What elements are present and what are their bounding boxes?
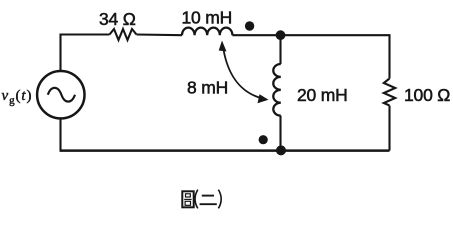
wire middle branch bottom — [279, 116, 281, 151]
svg-text:8 mH: 8 mH — [187, 78, 228, 98]
wire middle branch top — [279, 35, 281, 64]
resistor R 34ohm zigzag — [110, 29, 137, 40]
caption parenthesis right — [218, 190, 221, 209]
wire left rail bottom — [59, 118, 61, 150]
wire between R1 and L1 — [137, 33, 183, 36]
svg-text:10 mH: 10 mH — [182, 8, 233, 28]
wire top-right from L1 to right rail — [232, 35, 389, 78]
resistor R 100ohm zigzag — [384, 79, 395, 106]
inductor L2 20mH — [273, 64, 281, 116]
node junction top — [276, 30, 286, 40]
coupling dot of L2 — [259, 135, 268, 144]
node junction bottom — [276, 145, 286, 155]
caption figure 2 glyph tu — [182, 191, 193, 207]
wire top-left from source corner to R1 — [61, 35, 110, 72]
svg-text:100 Ω: 100 Ω — [404, 85, 450, 105]
svg-text:20 mH: 20 mH — [297, 85, 348, 105]
coupling dot of L1 — [245, 21, 254, 30]
mutual coupling arrow 8mH — [219, 41, 269, 104]
wire right rail bottom — [388, 106, 390, 151]
source Vg circle — [37, 71, 84, 118]
caption parenthesis left — [195, 190, 198, 209]
wire bottom rail — [60, 149, 390, 152]
inductor L1 10mH — [182, 28, 232, 36]
svg-text:34 Ω: 34 Ω — [99, 9, 136, 29]
svg-text:vg(t): vg(t) — [2, 88, 33, 107]
caption glyph er (two) — [200, 196, 217, 205]
source sine symbol — [48, 88, 75, 102]
